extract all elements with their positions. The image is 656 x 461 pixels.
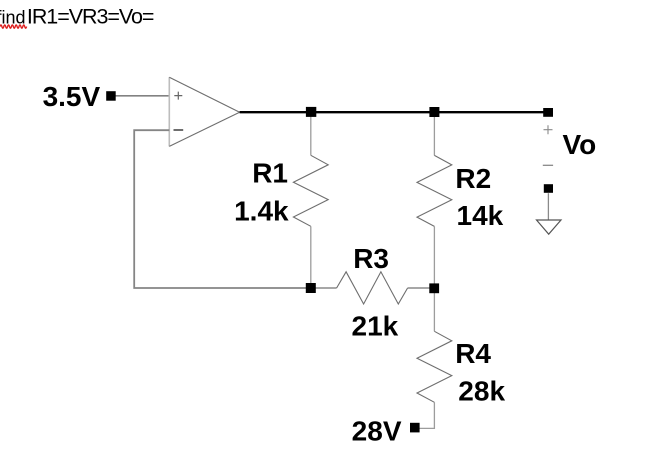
wire R2 top lead bbox=[433, 112, 435, 155]
svg-text:R2: R2 bbox=[455, 163, 491, 194]
wire Vo - terminal to ground bbox=[547, 193, 549, 219]
op-amp U1 triangle bbox=[169, 77, 239, 146]
spellcheck squiggle under "find" bbox=[0, 25, 27, 28]
terminal square Vo + bbox=[543, 108, 553, 117]
wire R1 top lead bbox=[310, 112, 312, 155]
terminal square Vo - bbox=[544, 184, 553, 193]
node junction R3 left / R1 bottom bbox=[306, 283, 316, 293]
svg-text:28k: 28k bbox=[458, 375, 505, 406]
wire 3.5V to op-amp + input bbox=[115, 95, 169, 97]
svg-text:R3: R3 bbox=[353, 243, 389, 274]
wire R1 bottom lead bbox=[310, 226, 312, 288]
wire feedback: - input left, down, right to node at bottom rail bbox=[134, 130, 310, 288]
node junction R2 top bbox=[429, 107, 439, 117]
node junction R1 top bbox=[306, 107, 316, 117]
node junction R3 right / R4 top bbox=[429, 283, 439, 293]
resistor R1 zigzag bbox=[293, 155, 328, 226]
svg-text:3.5V: 3.5V bbox=[43, 81, 101, 112]
svg-text:28V: 28V bbox=[352, 416, 402, 447]
svg-text:14k: 14k bbox=[457, 200, 504, 231]
svg-text:1.4k: 1.4k bbox=[234, 195, 289, 226]
title text "find IR1=VR3=Vo=" bbox=[0, 5, 154, 29]
wire R4 bottom lead bbox=[418, 402, 434, 428]
wire op-amp output to Vo terminal bbox=[240, 111, 549, 113]
svg-text:R1: R1 bbox=[252, 157, 288, 188]
resistor R3 zigzag bbox=[337, 272, 408, 304]
terminal square 28V source bbox=[410, 423, 420, 433]
ground symbol bbox=[537, 220, 562, 234]
svg-text:R4: R4 bbox=[455, 338, 491, 369]
op-amp - input marking bbox=[174, 129, 184, 131]
op-amp + input marking bbox=[174, 92, 182, 100]
svg-text:Vo: Vo bbox=[563, 129, 597, 160]
svg-text:IR1=VR3=Vo=: IR1=VR3=Vo= bbox=[27, 5, 154, 29]
resistor R4 zigzag bbox=[417, 331, 452, 402]
wire R3 left lead bbox=[310, 287, 336, 289]
wire R3 right lead bbox=[408, 287, 434, 289]
wire R2 bottom lead bbox=[433, 226, 435, 288]
terminal square 3.5V source bbox=[106, 91, 116, 101]
wire R4 top lead bbox=[433, 288, 435, 331]
svg-text:21k: 21k bbox=[352, 311, 399, 342]
Vo - polarity marking bbox=[543, 164, 553, 166]
resistor R2 zigzag bbox=[417, 155, 452, 226]
Vo + polarity marking bbox=[544, 125, 553, 134]
